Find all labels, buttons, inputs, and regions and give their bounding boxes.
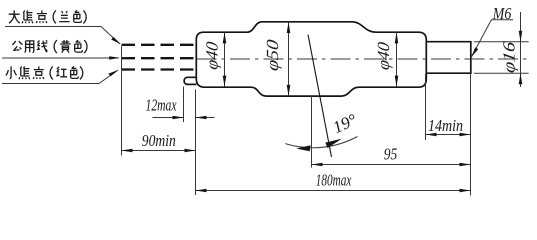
anode stub cylinder phi16	[426, 42, 471, 73]
wire 3 (small focus, red)	[122, 68, 197, 70]
tube body	[196, 22, 426, 96]
target angle line 19deg	[308, 35, 332, 158]
svg-text:φ16: φ16	[500, 40, 519, 74]
leader large focus	[5, 27, 120, 44]
centre axis line	[197, 58, 530, 60]
leader small focus	[2, 70, 118, 83]
angle arc	[285, 137, 357, 148]
svg-text:φ40: φ40	[374, 40, 393, 71]
svg-text:95: 95	[384, 145, 398, 164]
svg-text:90min: 90min	[142, 131, 176, 150]
svg-text:12max: 12max	[146, 96, 177, 115]
svg-text:180max: 180max	[316, 170, 352, 189]
exhaust stem (left tip)	[184, 77, 196, 84]
leader common	[2, 57, 119, 59]
wire 1 (large focus, blue)	[122, 44, 197, 46]
svg-text:14min: 14min	[428, 116, 463, 135]
svg-text:φ50: φ50	[263, 38, 282, 72]
svg-text:φ40: φ40	[203, 40, 222, 71]
wire 2 (common, yellow)	[122, 57, 197, 59]
